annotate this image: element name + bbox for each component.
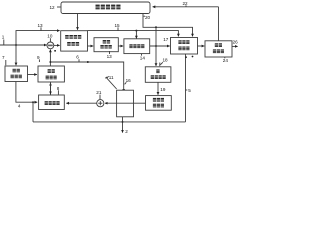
double wire compensator <-> frame memory, label 8 <box>50 83 52 95</box>
subtractor circle, label 10 <box>47 42 54 49</box>
wire controller down right to VLC, label 20 <box>143 14 193 37</box>
svg-text:8: 8 <box>57 86 60 91</box>
mode decider box 编码模式判定器 <box>61 31 88 51</box>
orthogonal transformer box 正交变换器, label 13b <box>94 38 118 52</box>
wire subtractor to mode decider <box>54 44 60 46</box>
motion compensator box 运动补偿器, label 9 <box>38 66 64 82</box>
quantizer box 量子化器, label 14 <box>124 39 150 54</box>
VLC box 可变长编码器, label 17 <box>171 38 198 55</box>
wire up to mode decider, label 13 <box>16 31 60 45</box>
wire controller to mode decider <box>77 14 79 30</box>
wire detector to compensator <box>28 74 37 76</box>
wire down to motion detector <box>15 45 17 65</box>
svg-text:12: 12 <box>50 5 56 10</box>
transmit buffer box 发送缓冲器 <box>205 41 232 57</box>
svg-text:22: 22 <box>183 1 189 6</box>
svg-text:10: 10 <box>47 34 53 39</box>
svg-text:20: 20 <box>145 15 151 20</box>
inverse quantizer box 逆量子化器, label 18b <box>145 67 171 83</box>
wire orthogonal to quantizer <box>118 45 123 47</box>
svg-text:21: 21 <box>96 90 102 95</box>
svg-text:24: 24 <box>223 58 229 63</box>
svg-text:5: 5 <box>188 88 191 93</box>
svg-text:26: 26 <box>233 40 239 45</box>
svg-text:15: 15 <box>115 23 121 28</box>
output 2 downward <box>122 117 124 133</box>
svg-text:6: 6 <box>76 55 79 60</box>
svg-text:16: 16 <box>126 78 132 83</box>
VLC bottom riser, label 5 <box>185 54 187 122</box>
wire detector down into memory, label 4 <box>16 82 37 103</box>
label 12 <box>50 5 56 10</box>
svg-text:13: 13 <box>38 23 44 28</box>
svg-text:14: 14 <box>140 55 146 60</box>
svg-text:1: 1 <box>2 35 5 40</box>
svg-text:2: 2 <box>125 129 128 134</box>
inverse orthogonal transformer box 逆正交变换器 <box>146 96 172 111</box>
bottom long wire <box>33 121 186 123</box>
wire mode decider to VLC top, label 15 <box>88 31 179 37</box>
switch arm, label 11 <box>106 78 116 89</box>
motion detector box 运动检测器, label 7 <box>5 66 28 82</box>
frame memory box 帧存储器 <box>39 95 65 110</box>
wire mode decider to orthogonal transformer <box>88 45 94 47</box>
output wire, labels 26 and 24 <box>232 45 238 47</box>
left riser to frame memory input <box>32 102 34 122</box>
input wire <box>0 44 47 46</box>
wire inverse transform to adder <box>105 102 146 104</box>
input terminal 1 <box>2 35 5 40</box>
vertical wire to inverse quantizer, label 18 <box>155 27 157 66</box>
wire quantizer to VLC <box>150 45 170 47</box>
wire compensator up into subtractor <box>49 50 51 66</box>
svg-text:11: 11 <box>109 75 114 80</box>
junction to quantizer top <box>135 30 137 32</box>
svg-text:9: 9 <box>37 55 40 60</box>
wire VLC to buffer <box>198 45 205 47</box>
wire feedback buffer to controller, label 22 <box>153 6 219 8</box>
adder circle, label 21 <box>66 102 96 104</box>
svg-text:17: 17 <box>163 37 169 42</box>
wire IQ to inverse transform, label 19 <box>157 82 159 94</box>
coding controller box B12 编码控制器 <box>61 2 150 14</box>
text smudge 编码控制器 <box>96 5 121 10</box>
junction on wire <box>155 26 157 28</box>
svg-text:13: 13 <box>107 54 113 59</box>
prediction wire to switch, label 16 <box>50 62 123 92</box>
label 6 under box <box>76 55 79 60</box>
svg-text:19: 19 <box>160 87 166 92</box>
switch contact box <box>117 90 134 117</box>
svg-text:4: 4 <box>18 104 21 109</box>
svg-text:7: 7 <box>2 55 5 60</box>
svg-text:18: 18 <box>163 58 169 63</box>
